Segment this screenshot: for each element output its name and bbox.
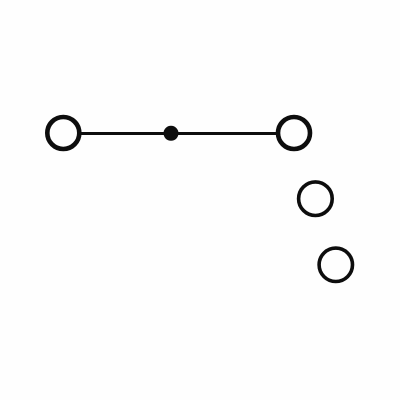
terminal contact lower small xyxy=(319,248,352,281)
junction node xyxy=(164,126,179,141)
terminal clamp point left xyxy=(47,117,79,149)
terminal contact upper small xyxy=(299,182,333,216)
terminal clamp point right xyxy=(278,117,310,149)
wire xyxy=(80,132,277,135)
